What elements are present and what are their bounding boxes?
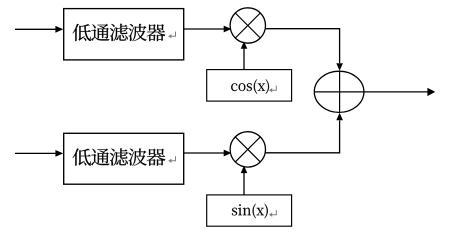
block F1: top low-pass filter box <box>64 9 184 60</box>
return mark after sin(x) <box>269 210 276 217</box>
block F2: bottom low-pass filter box <box>64 133 184 184</box>
wire: F2 output to multiplier M2 <box>184 150 232 157</box>
wire: bottom input arrow <box>15 150 63 157</box>
label: 低通滤波器 (top) <box>73 24 166 41</box>
label: 低通滤波器 (bottom) <box>73 148 166 165</box>
multiplier M2 (circle with X) <box>230 132 265 167</box>
wire: cos(x) up into multiplier M1 <box>241 41 248 69</box>
label: cos(x) <box>231 79 269 94</box>
wire: sin(x) up into multiplier M2 <box>241 166 248 195</box>
wire: M1 output right then down into summer top <box>266 29 343 71</box>
wire: top input arrow <box>15 26 63 33</box>
wire: M2 output right then up into summer bottom <box>266 113 343 153</box>
return mark after top label <box>168 32 175 39</box>
wire: F1 output to multiplier M1 <box>184 26 232 33</box>
return mark after cos(x) <box>269 86 276 93</box>
summer S1 (ellipse with plus) <box>314 71 364 112</box>
block: sin(x) oscillator box <box>207 195 292 226</box>
return mark after bottom label <box>168 156 175 163</box>
wire: summer output arrow <box>364 88 435 96</box>
multiplier M1 (circle with X) <box>230 8 265 43</box>
label: sin(x) <box>232 204 268 219</box>
block: cos(x) oscillator box <box>207 70 292 102</box>
